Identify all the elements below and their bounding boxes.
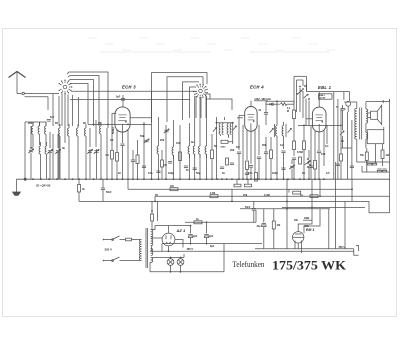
wire grid feed xyxy=(245,201,256,222)
svg-text:5nF: 5nF xyxy=(50,116,55,119)
wire sec to rail xyxy=(151,244,162,252)
capacitor C20 xyxy=(237,152,241,179)
coil L15 xyxy=(199,140,200,158)
fuse F1 xyxy=(126,238,141,241)
rail 201 xyxy=(79,200,369,202)
svg-text:175/375 WK: 175/375 WK xyxy=(272,259,346,273)
mains terminals xyxy=(103,239,112,262)
resistor h3 xyxy=(289,189,301,194)
capacitor comb extra xyxy=(142,163,354,175)
svg-text:35 = QR 416: 35 = QR 416 xyxy=(36,185,51,188)
coil L14 xyxy=(193,140,194,158)
wire middle verticals xyxy=(144,92,207,179)
tube ECH3 (U1) xyxy=(115,107,130,132)
junction dots left bus xyxy=(24,178,108,180)
trimmer C9 xyxy=(144,139,150,143)
resistor R22 xyxy=(360,152,368,172)
pot volume xyxy=(305,150,311,179)
svg-text:25k: 25k xyxy=(160,138,165,142)
resistor R15 xyxy=(270,137,273,179)
svg-text:50p: 50p xyxy=(196,171,201,175)
capacitor C21 xyxy=(249,166,253,180)
svg-text:20μ: 20μ xyxy=(257,226,262,228)
resistor R6 xyxy=(136,140,139,179)
wire ECH4 pins xyxy=(239,115,259,179)
svg-text:20k: 20k xyxy=(230,148,235,152)
lamp La1 xyxy=(167,259,174,266)
svg-text:2n: 2n xyxy=(118,171,121,175)
svg-text:AZ 1: AZ 1 xyxy=(176,228,186,233)
rail 222 xyxy=(185,210,256,222)
wire EBL1 pins xyxy=(311,125,327,179)
rail 208248 xyxy=(240,208,330,210)
capacitor grid EBL xyxy=(336,105,344,130)
trimmer C2 xyxy=(47,149,53,153)
capacitor C22 xyxy=(257,157,261,179)
wire heater stub xyxy=(183,254,185,258)
junction dots ech4 xyxy=(211,178,267,180)
wire speaker feed xyxy=(366,99,390,162)
svg-text:40k: 40k xyxy=(294,219,299,222)
band switch S1 xyxy=(59,80,73,95)
resistor 4k xyxy=(78,179,86,201)
wire S1 net c xyxy=(69,80,94,127)
IF transformer T1 xyxy=(216,122,234,140)
misc value labels xyxy=(28,121,344,197)
wire S2 to right xyxy=(205,94,232,110)
svg-text:Telefunken: Telefunken xyxy=(233,260,265,269)
transformer sec heater xyxy=(151,258,153,263)
wire HT to AZ1 xyxy=(151,226,169,253)
resistor h4 xyxy=(310,195,318,198)
svg-text:5n: 5n xyxy=(302,171,305,175)
wire left block tops xyxy=(25,122,46,126)
resistor EBL1 cath xyxy=(314,161,317,180)
wire EBL1 grid lead xyxy=(306,118,312,120)
coil L16 xyxy=(205,140,206,158)
coil L1 xyxy=(32,122,33,139)
antenna xyxy=(9,72,26,94)
capacitor block b xyxy=(377,169,386,172)
capacitor 50pF xyxy=(259,101,269,125)
band switch S2 xyxy=(193,84,208,99)
capacitor above ECH3 xyxy=(116,95,125,107)
trimmer T2 left xyxy=(270,128,274,133)
trimmer C8 xyxy=(164,129,170,133)
rail 212 xyxy=(369,172,390,213)
speaker terminal box xyxy=(367,127,384,148)
rail 189 xyxy=(128,179,352,189)
rail 207 xyxy=(282,207,365,209)
capacitor C25 xyxy=(264,137,268,179)
svg-text:10n: 10n xyxy=(148,171,153,175)
wire S1 net d xyxy=(70,84,89,125)
svg-text:OSZ. 460 kHz: OSZ. 460 kHz xyxy=(255,97,272,101)
trimmer tone xyxy=(340,131,344,148)
resistor R12 xyxy=(246,161,249,179)
wire S1 long run upper xyxy=(71,90,197,92)
coil L12 xyxy=(172,141,173,159)
wire em1 left xyxy=(286,179,288,249)
wire pot drops xyxy=(303,91,309,126)
wire lamp bottom rail xyxy=(150,244,224,273)
svg-text:0,1: 0,1 xyxy=(325,144,329,148)
wire EBL1 cross xyxy=(298,125,342,127)
svg-text:0,5M: 0,5M xyxy=(297,150,303,154)
capacitor block a xyxy=(367,162,376,165)
svg-text:0,2: 0,2 xyxy=(280,143,284,147)
resistor R8 xyxy=(179,152,182,161)
IF transformer T2 xyxy=(275,120,287,141)
switch mains xyxy=(112,236,141,261)
ground bus xyxy=(17,178,391,180)
label 40k 1M xyxy=(294,217,312,222)
bracket bottom right xyxy=(354,246,359,256)
capacitor C13 xyxy=(163,162,172,168)
svg-text:200: 200 xyxy=(28,121,33,125)
coil L5 xyxy=(68,124,69,141)
wire ECH4 top xyxy=(237,101,251,118)
trimmer C4 xyxy=(87,149,93,153)
coil L8 xyxy=(100,122,101,139)
svg-text:EM 1: EM 1 xyxy=(306,228,314,232)
wire S2 rect a xyxy=(152,73,208,122)
svg-text:250 V: 250 V xyxy=(338,246,346,249)
resistor R10 xyxy=(211,134,214,179)
wire right rail xyxy=(341,148,390,163)
svg-text:M: M xyxy=(287,111,289,113)
wire T1 leads xyxy=(217,117,233,179)
coil L11 xyxy=(157,140,158,158)
svg-text:25k: 25k xyxy=(243,193,248,197)
junction dots ebl xyxy=(270,178,325,180)
coil L9 xyxy=(39,142,40,179)
wire AZ1 out xyxy=(169,225,192,248)
speaker LS xyxy=(367,105,382,124)
tube ECH4 (U2) xyxy=(245,107,257,132)
output transformer T3 xyxy=(355,108,368,140)
svg-text:1M: 1M xyxy=(236,145,240,149)
rail 243 xyxy=(162,243,262,245)
trimmer C1 xyxy=(28,149,34,153)
svg-text:4,5 W: 4,5 W xyxy=(320,97,327,100)
trimmer C3 xyxy=(55,149,61,153)
resistor R13 xyxy=(255,173,258,182)
wire ECH3 pins xyxy=(112,113,128,179)
coil L3 xyxy=(45,122,46,139)
capacitor T1 bottom xyxy=(221,135,233,149)
svg-text:100: 100 xyxy=(176,141,181,145)
wire opt leads xyxy=(344,102,366,162)
trimmer T1 left xyxy=(213,127,217,132)
potentiometer arrows xyxy=(296,80,310,112)
svg-text:0,1: 0,1 xyxy=(110,138,114,142)
resistor top of mains xyxy=(151,201,154,229)
label osc freq xyxy=(254,97,272,101)
svg-text:50mA: 50mA xyxy=(111,127,115,134)
resistor R23 xyxy=(381,144,390,166)
svg-text:5n: 5n xyxy=(222,171,225,175)
wire pot cluster top xyxy=(294,76,307,91)
wire em1 top xyxy=(298,208,320,234)
trimmer leads xyxy=(31,126,97,179)
capacitor 20uF xyxy=(257,209,267,249)
rail 248 (250V) xyxy=(255,246,354,249)
resistor 15k xyxy=(272,209,281,249)
coil L6 xyxy=(77,124,78,141)
capacitor C26 xyxy=(292,158,296,179)
capacitor EBL1 xyxy=(317,151,321,179)
svg-text:4μF: 4μF xyxy=(209,235,214,238)
wire right verticals xyxy=(338,99,376,179)
wire af coupling run xyxy=(265,90,294,106)
info box EBL1 xyxy=(319,94,333,100)
wire heater run xyxy=(150,258,166,263)
coil L10 xyxy=(45,142,46,179)
wire 460k top xyxy=(266,100,294,102)
trimmer C30 xyxy=(289,160,295,179)
rail 380V xyxy=(150,248,354,251)
coil L4 xyxy=(59,124,60,141)
svg-text:0,1M: 0,1M xyxy=(210,193,215,195)
tube EBL1 (U3) xyxy=(312,107,326,132)
terminal circle xyxy=(344,101,351,112)
trimmer T1 right xyxy=(233,126,237,131)
svg-text:150: 150 xyxy=(321,152,326,156)
transformer sec HT xyxy=(151,230,153,246)
wire S1 net b xyxy=(68,76,99,127)
svg-text:50nF: 50nF xyxy=(106,191,112,194)
resistor comb extra xyxy=(161,148,343,179)
svg-text:10n: 10n xyxy=(248,171,253,175)
junction dots mid bus xyxy=(111,178,207,180)
resistor 1k5 h xyxy=(170,186,178,191)
resistor R16 xyxy=(293,135,296,156)
svg-text:0,3M: 0,3M xyxy=(264,193,270,197)
svg-text:50k: 50k xyxy=(262,143,267,147)
capacitor ECH3 k xyxy=(120,144,124,179)
svg-text:1MΩ: 1MΩ xyxy=(304,217,309,220)
capacitor 50nF bus xyxy=(101,179,112,201)
transformer core xyxy=(146,228,148,268)
svg-text:ECH 4: ECH 4 xyxy=(250,85,264,90)
svg-text:5000: 5000 xyxy=(221,147,227,149)
resistor 0,3M xyxy=(106,151,114,180)
capacitor 4uF a xyxy=(188,226,197,244)
resistor grid ECH3 xyxy=(116,153,119,180)
resistor 1k smoothing xyxy=(194,218,202,224)
ground symbol xyxy=(13,179,21,195)
lamp La2 xyxy=(177,259,184,266)
svg-text:ECH 3: ECH 3 xyxy=(122,85,136,90)
capacitor C12 xyxy=(131,150,135,179)
resistor R20 xyxy=(303,126,306,179)
capacitor C14 xyxy=(184,166,189,172)
wire S2 drops xyxy=(196,96,206,118)
svg-text:7n: 7n xyxy=(341,139,344,143)
wire AVC grid line xyxy=(88,124,152,126)
wire S2 rect b xyxy=(167,77,203,122)
junction dots rails xyxy=(154,188,353,208)
svg-text:5pF: 5pF xyxy=(116,96,121,99)
svg-text:3n: 3n xyxy=(191,140,194,144)
svg-text:50k: 50k xyxy=(140,134,145,138)
trimmer C5 xyxy=(94,149,100,153)
wire EBL1 top run xyxy=(307,84,350,180)
wire lamp top xyxy=(166,257,184,259)
capacitor 4uF b xyxy=(204,221,213,243)
wire S2 rect d xyxy=(190,87,197,118)
wire right col xyxy=(345,179,352,249)
svg-text:100p: 100p xyxy=(272,171,278,175)
svg-text:220 V: 220 V xyxy=(105,248,112,252)
faint page bleed-through (decorative) xyxy=(88,38,335,52)
wire T2 leads xyxy=(276,100,283,179)
resistor h2 xyxy=(210,193,218,198)
svg-text:380 V: 380 V xyxy=(187,248,194,251)
wire antenna to band switch xyxy=(17,92,59,110)
svg-text:0,5: 0,5 xyxy=(326,171,330,175)
coil L2 xyxy=(38,122,39,139)
rail 196 xyxy=(155,196,390,201)
svg-text:4μF: 4μF xyxy=(193,235,198,238)
capacitor 5nF xyxy=(47,116,55,121)
transformer sec rect fil xyxy=(151,249,153,256)
wire EBL1 stem top xyxy=(318,92,320,108)
wire S1 net a xyxy=(67,72,108,128)
coil L13 xyxy=(188,140,189,158)
transformer primary xyxy=(139,240,141,261)
wire S1 drops xyxy=(53,94,79,144)
wire mid top a xyxy=(130,117,151,119)
capacitor C24 xyxy=(281,151,285,179)
resistor 0,1M xyxy=(287,101,296,135)
wire em1 net xyxy=(312,162,336,249)
svg-text:EBL 1: EBL 1 xyxy=(318,85,332,90)
wire S1 long run lower xyxy=(70,98,190,100)
trimmer T2 right xyxy=(288,128,292,133)
wire right rail 2 xyxy=(362,162,390,172)
resistor h5 xyxy=(234,179,252,187)
wire left block verticals xyxy=(25,120,107,179)
tube AZ1 (U4) xyxy=(162,226,175,246)
tube EM1 (U5) xyxy=(293,232,304,253)
wire bus drop a xyxy=(158,189,233,221)
svg-text:8μF: 8μF xyxy=(210,245,215,248)
wire S2 rect c xyxy=(183,82,200,120)
svg-text:100p: 100p xyxy=(168,171,174,175)
coil L7 xyxy=(85,124,86,141)
